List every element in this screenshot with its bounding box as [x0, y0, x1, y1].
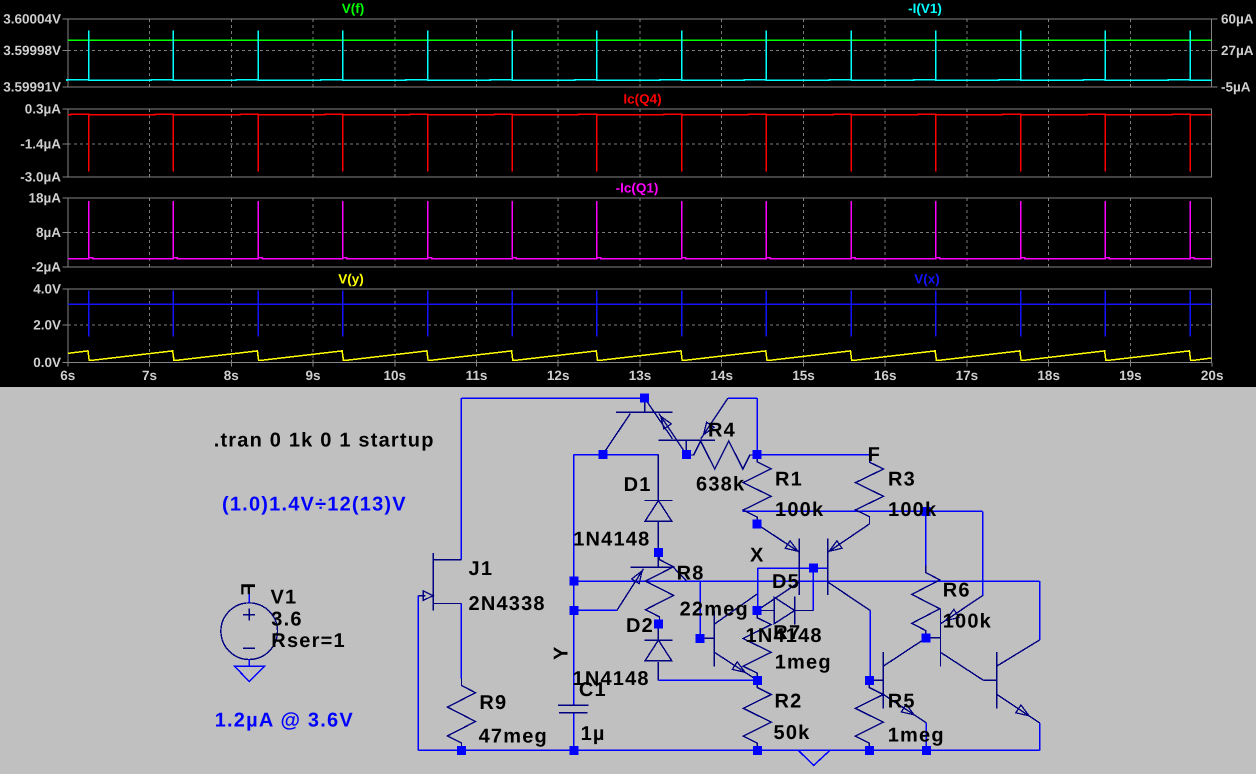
transistor QD (npn, base at 22meg node): [713, 611, 715, 667]
transistor QE (pnp mirror left): [798, 539, 800, 595]
wire top rail J1 drain to Q-pair: [461, 397, 644, 399]
junction bus / R9: [457, 746, 466, 755]
svg-text:R6: R6: [943, 580, 971, 602]
svg-text:9s: 9s: [305, 368, 320, 383]
svg-text:1N4148: 1N4148: [573, 529, 650, 551]
wire QB emitter corner to R4 right node: [728, 397, 757, 399]
svg-text:.tran 0 1k 0 1 startup: .tran 0 1k 0 1 startup: [214, 430, 435, 452]
transistor QC (at D1/R8 node): [630, 566, 673, 568]
svg-text:2N4338: 2N4338: [469, 593, 546, 615]
resistor R9: [448, 678, 476, 750]
wire node R4/R1 to R3 top (net F): [757, 454, 869, 456]
ground under V1: [234, 666, 264, 682]
junction y511 rail / R6 top: [921, 507, 930, 516]
junction QD base / 22meg column: [696, 634, 705, 643]
voltage source V1: [221, 603, 278, 660]
svg-text:-2µA: -2µA: [31, 260, 61, 275]
svg-text:1meg: 1meg: [775, 652, 832, 674]
y axis labels: [3, 12, 1254, 384]
svg-text:4.0V: 4.0V: [33, 282, 61, 297]
svg-text:100k: 100k: [943, 611, 992, 633]
svg-text:50k: 50k: [774, 722, 811, 744]
wire NPN2 emitter riser: [1039, 723, 1041, 750]
svg-text:22meg: 22meg: [680, 599, 749, 621]
junction bus / R5: [865, 746, 874, 755]
wire J1 gate rail: [417, 596, 419, 751]
svg-text:V(y): V(y): [338, 272, 364, 287]
svg-text:8s: 8s: [224, 368, 239, 383]
wire net X column: [757, 568, 759, 610]
svg-text:Y: Y: [551, 645, 573, 660]
svg-text:18µA: 18µA: [28, 191, 61, 206]
svg-text:V1: V1: [271, 587, 298, 609]
trace Ic(Q4) red: [68, 114, 1212, 171]
svg-text:1µ: 1µ: [581, 723, 606, 745]
svg-text:(1.0)1.4V÷12(13)V: (1.0)1.4V÷12(13)V: [222, 494, 407, 516]
junction QB base / R4 left: [682, 450, 691, 459]
wire y=610 stub to QC emitter: [574, 609, 617, 611]
junction D1 / R8 / QC base: [654, 548, 663, 557]
svg-text:R1: R1: [775, 469, 803, 491]
resistor R4: [686, 441, 757, 469]
wire D1 to R8 node column: [657, 521, 659, 553]
diode D2: [644, 639, 672, 641]
junction QA collector / D1 rail: [598, 450, 607, 459]
waveform plot panes: [68, 19, 1212, 362]
svg-text:J1: J1: [469, 558, 494, 580]
svg-text:1N4148: 1N4148: [573, 668, 650, 690]
diode D1: [644, 500, 672, 502]
svg-text:R7: R7: [773, 622, 801, 644]
svg-text:-5µA: -5µA: [1221, 80, 1251, 95]
junction left column / QC emitter wire: [570, 606, 579, 615]
svg-text:15s: 15s: [792, 368, 815, 383]
svg-text:10s: 10s: [384, 368, 407, 383]
svg-text:D1: D1: [624, 474, 652, 496]
junction left column / y581 bus: [570, 577, 579, 586]
junction R8 / D2: [654, 620, 663, 629]
wire node A row to D1: [574, 454, 659, 456]
svg-text:19s: 19s: [1119, 368, 1142, 383]
svg-text:3.6: 3.6: [271, 608, 302, 630]
resistor R2: [743, 680, 771, 750]
svg-text:18s: 18s: [1037, 368, 1060, 383]
trace V(y) yellow: [68, 351, 1212, 361]
trace -Ic(Q1) magenta: [68, 201, 1212, 259]
junction R6 bottom / QH base: [921, 633, 930, 642]
resistor R1: [743, 455, 771, 525]
svg-text:R4: R4: [708, 420, 736, 442]
svg-text:V(x): V(x): [914, 272, 940, 287]
svg-text:17s: 17s: [956, 368, 979, 383]
svg-text:16s: 16s: [874, 368, 897, 383]
junction R7 / R2 / QD emitter: [753, 676, 762, 685]
resistor R6: [912, 565, 940, 637]
svg-text:100k: 100k: [775, 499, 824, 521]
svg-text:20s: 20s: [1201, 368, 1224, 383]
transistor QB (pnp, rotated 180): [659, 439, 715, 441]
svg-text:V(f): V(f): [342, 1, 365, 16]
svg-text:X: X: [750, 545, 765, 567]
svg-text:Ic(Q4): Ic(Q4): [623, 92, 661, 107]
transistor QH (pnp at R6 node): [940, 610, 942, 667]
junction R1 bottom / QE emitter: [753, 520, 762, 529]
svg-text:13s: 13s: [629, 368, 652, 383]
svg-text:R3: R3: [888, 469, 916, 491]
svg-text:11s: 11s: [466, 368, 488, 383]
resistor R8: [646, 552, 674, 624]
svg-text:R8: R8: [677, 563, 705, 585]
svg-text:-I(V1): -I(V1): [908, 1, 942, 16]
ground on bottom bus: [798, 750, 830, 765]
wire J1 source to R9: [460, 604, 462, 679]
capacitor C1: [558, 704, 589, 706]
wire MR collector down to R5 node: [869, 611, 871, 681]
transistor QF (pnp mirror right): [827, 539, 829, 595]
trace V(x) blue: [68, 303, 1212, 305]
junction bus / QG emitter: [922, 746, 931, 755]
diode D5: [757, 610, 774, 612]
svg-text:638k: 638k: [696, 474, 745, 496]
wire y=511 rail to T5: [742, 510, 982, 512]
resistor R5: [855, 680, 883, 750]
svg-text:14s: 14s: [710, 368, 733, 383]
svg-text:0.3µA: 0.3µA: [25, 102, 62, 117]
svg-text:R5: R5: [888, 691, 916, 713]
svg-text:-1.4µA: -1.4µA: [20, 137, 61, 152]
wire NPN1 emitter riser: [925, 723, 927, 750]
svg-text:6s: 6s: [60, 368, 75, 383]
svg-text:-Ic(Q1): -Ic(Q1): [616, 181, 659, 196]
svg-text:1.2µA @ 3.6V: 1.2µA @ 3.6V: [215, 710, 354, 732]
trace -I(V1) cyan: [67, 31, 1212, 81]
junction bus / C1: [569, 746, 578, 755]
trace name labels: [338, 1, 942, 287]
svg-text:D5: D5: [772, 571, 800, 593]
svg-text:60µA: 60µA: [1221, 12, 1254, 27]
wire bottom bus: [418, 749, 1039, 751]
wire left column x=574: [573, 455, 575, 706]
junction mirror bases / D5 column: [809, 564, 818, 573]
svg-text:3.59998V: 3.59998V: [3, 43, 61, 58]
svg-text:12s: 12s: [547, 368, 570, 383]
svg-text:3.60004V: 3.60004V: [3, 12, 61, 27]
junction net X / D5 / R7 top: [753, 606, 762, 615]
wire D2 out to R2 top node: [657, 662, 659, 681]
svg-text:-3.0µA: -3.0µA: [20, 170, 61, 185]
transistor QI (npn right): [996, 652, 998, 708]
svg-text:D2: D2: [626, 615, 654, 637]
svg-text:2.0V: 2.0V: [33, 318, 61, 333]
junction QA base / top rail: [640, 394, 649, 403]
svg-text:100k: 100k: [888, 499, 937, 521]
JFET J1: [432, 553, 434, 610]
svg-text:R9: R9: [479, 692, 507, 714]
junction bus / R2: [753, 746, 762, 755]
transistor QG (npn at R5 node): [882, 652, 884, 708]
svg-text:Rser=1: Rser=1: [271, 630, 345, 652]
svg-text:F: F: [868, 444, 881, 466]
svg-text:8µA: 8µA: [36, 225, 61, 240]
svg-text:0.0V: 0.0V: [33, 355, 61, 370]
svg-text:27µA: 27µA: [1221, 43, 1254, 58]
wire D2 top lead: [657, 624, 659, 640]
svg-text:F: F: [238, 583, 260, 596]
svg-text:3.59991V: 3.59991V: [3, 80, 61, 95]
transistor QA (pnp, plate horizontal top): [616, 411, 673, 413]
trace V(f) green: [68, 39, 1212, 41]
svg-text:47meg: 47meg: [479, 726, 548, 748]
junction R5 top / QG base: [865, 676, 874, 685]
svg-text:7s: 7s: [142, 368, 157, 383]
wire bus to QD base node: [699, 581, 701, 638]
wire long y=581 bus: [574, 580, 1039, 582]
resistor R7: [743, 611, 771, 681]
svg-text:1meg: 1meg: [888, 725, 945, 747]
svg-text:R2: R2: [775, 691, 803, 713]
resistor R3: [856, 455, 884, 524]
junction R4 right / R1 top: [753, 450, 762, 459]
